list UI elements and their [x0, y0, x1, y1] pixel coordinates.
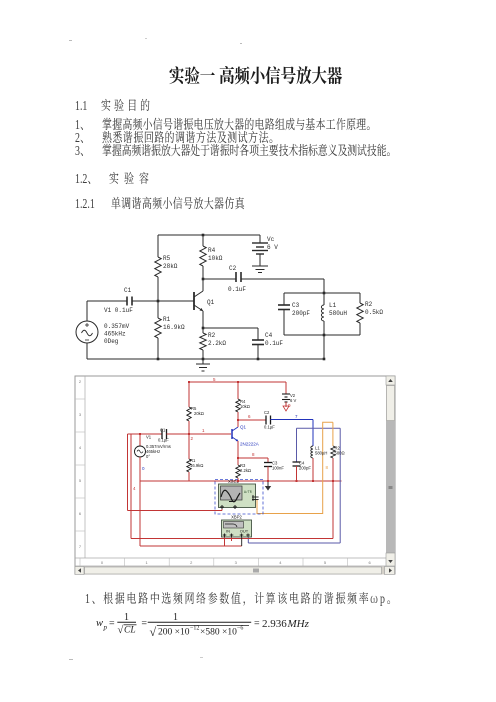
svg-text:−6: −6: [237, 626, 243, 632]
svg-text:p: p: [103, 624, 108, 632]
svg-text:√: √: [118, 624, 124, 636]
svg-text:1: 1: [173, 612, 178, 623]
svg-text:w: w: [96, 618, 103, 629]
svg-text:1: 1: [124, 612, 129, 623]
svg-text:=: =: [141, 619, 147, 630]
svg-text:MHz: MHz: [287, 618, 310, 630]
svg-text:200 ×10: 200 ×10: [158, 628, 190, 638]
svg-text:−12: −12: [190, 626, 199, 632]
svg-text:=: =: [109, 619, 115, 630]
svg-text:=: =: [254, 619, 260, 630]
svg-text:×580 ×10: ×580 ×10: [200, 628, 237, 638]
svg-text:√: √: [150, 625, 157, 639]
svg-text:2.936: 2.936: [262, 618, 287, 630]
svg-text:CL: CL: [124, 626, 136, 636]
